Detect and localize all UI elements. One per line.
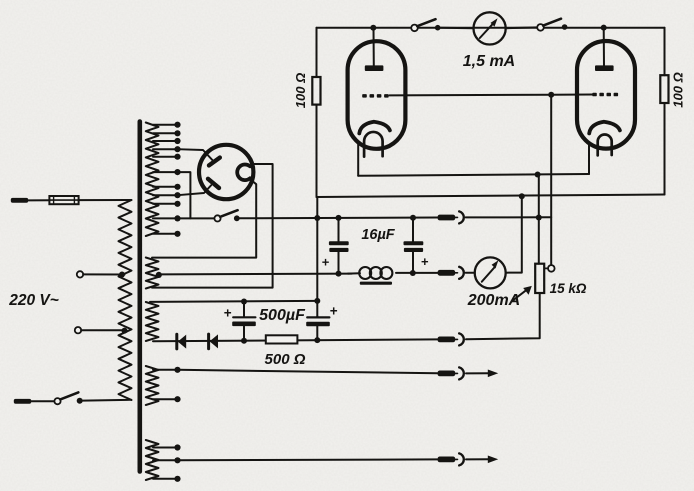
wire loop bottom down to meter M2 <box>506 196 522 273</box>
label R2 100 Ohm <box>671 72 686 107</box>
tube V2 envelope right <box>577 41 635 149</box>
wire V1 cathode to filament rail <box>357 142 359 176</box>
label M1 1,5 mA <box>463 53 515 70</box>
plug contact jack5 <box>438 457 458 463</box>
wire loop bottom rail <box>317 195 665 198</box>
node pot feed junction on rail <box>536 215 542 221</box>
label M2 200mA <box>467 292 520 309</box>
wire below R1 down to loop bottom <box>316 105 318 197</box>
wire grid junction to V2 <box>551 94 592 96</box>
node grid junction <box>548 92 554 98</box>
tube V1 envelope left <box>348 41 406 149</box>
pot adjustment arrow <box>512 286 532 302</box>
svg-text:500 Ω: 500 Ω <box>265 351 306 368</box>
selector keyway notch <box>237 164 250 180</box>
wire S1 to meter <box>441 27 474 29</box>
primary winding <box>119 200 132 400</box>
diode D2 <box>209 334 218 349</box>
wire jack1 to wiper line <box>466 216 552 218</box>
wire meter to S2 <box>506 26 538 29</box>
wire DC top rail <box>150 301 317 302</box>
wire terminal upper to primary <box>83 273 124 275</box>
node anode junction left tube <box>370 25 376 31</box>
svg-text:+: + <box>322 255 330 270</box>
arrow output 5 <box>466 456 498 464</box>
wire terminal lower to primary <box>81 329 126 331</box>
pot wiper contact <box>544 265 554 272</box>
wire stub to switch S4 <box>31 400 54 402</box>
capacitor C4 500uF <box>306 316 330 340</box>
plug contact jack4 <box>438 371 458 377</box>
wire right vertical of loop upper <box>664 28 666 75</box>
cathode dome V2 <box>589 122 620 134</box>
grid V2 (dashes) <box>592 93 618 97</box>
plug contact jack3 <box>438 337 458 343</box>
terminal 220V upper <box>77 271 83 277</box>
wire selector lower contact to sec2 top <box>152 181 256 258</box>
node cap2 bottom <box>410 270 416 276</box>
wire S4 to primary bottom <box>83 399 131 402</box>
wire fuse to primary top <box>79 199 131 201</box>
tap S5 bottom with dot <box>153 476 181 482</box>
wire top rail of output loop <box>317 27 665 29</box>
label C4 plus <box>330 304 338 319</box>
secondary winding S4 (filament A) <box>146 366 159 405</box>
label C1 plus <box>322 255 330 270</box>
wire stub to fuse <box>28 199 49 201</box>
jack socket jack2 <box>459 267 464 279</box>
fuse F1 lead stub <box>11 198 28 203</box>
label P1 15 kOhm <box>550 281 587 296</box>
label C2 plus <box>421 254 429 269</box>
tap S4 top with dot <box>153 367 181 373</box>
svg-text:1,5 mA: 1,5 mA <box>463 53 515 70</box>
anode plate V2 <box>595 65 614 71</box>
jack socket jack5 <box>459 453 464 465</box>
meter M1 1.5mA <box>474 12 506 44</box>
voltage selector socket body <box>199 145 253 199</box>
wire tap6 to switch S3 feed <box>178 172 191 218</box>
wire anode lead V1 <box>373 28 375 66</box>
svg-text:200mA: 200mA <box>467 292 520 309</box>
node cap3 top junction <box>241 299 247 305</box>
node primary tap upper <box>119 272 125 278</box>
switch S1 left of meter <box>411 19 440 31</box>
filament V2 <box>598 135 612 156</box>
secondary winding S2 <box>146 258 159 289</box>
capacitor C2 16uF <box>404 218 424 274</box>
wire pot bottom down and left to jack3 <box>466 293 540 339</box>
label C3 plus <box>224 306 232 321</box>
node primary tap lower <box>122 328 128 334</box>
wire filament junction down to pot <box>538 175 540 264</box>
wire filament rail between tubes <box>358 174 589 176</box>
svg-text:15 kΩ: 15 kΩ <box>550 281 587 296</box>
wire anode lead V2 <box>603 28 605 66</box>
label R3 500 Ohm <box>265 351 306 368</box>
tap S5 middle with dot <box>153 457 181 463</box>
anode plate V1 <box>365 65 384 71</box>
wire lower filter rail left part <box>160 273 353 276</box>
svg-text:+: + <box>224 306 232 321</box>
capacitor C1 16uF <box>329 218 349 274</box>
node rail x317 <box>314 215 320 221</box>
svg-text:220 V~: 220 V~ <box>8 292 59 309</box>
wire top filter rail <box>237 217 438 220</box>
arrow output 4 <box>466 370 498 378</box>
wire V2 cathode to filament rail <box>588 143 590 174</box>
mains stub bottom <box>14 399 31 404</box>
wire tap10 to switch S3 <box>178 217 215 219</box>
node sec2 centre tap <box>156 272 162 278</box>
plug contact jack1 <box>438 215 458 221</box>
inductor L1 choke loops <box>348 267 392 279</box>
wire jack2 to M2 <box>466 272 475 274</box>
wire long vertical from loop corner down <box>316 197 318 316</box>
secondary winding S5 (filament B) <box>146 440 159 480</box>
node DC top rail junction <box>314 298 320 304</box>
wire grid junction down to wiper <box>550 95 552 265</box>
taps of secondary 1 with terminal dots <box>153 122 181 237</box>
resistor R1 100 Ohm left <box>312 77 320 105</box>
node filament rail junction <box>535 172 541 178</box>
resistor R3 500 Ohm <box>266 335 298 343</box>
node cap1 bottom <box>336 271 342 277</box>
switch S2 right of meter <box>537 19 567 31</box>
cathode dome V1 <box>359 122 390 134</box>
svg-text:+: + <box>330 304 338 319</box>
svg-text:500µF: 500µF <box>259 307 306 324</box>
switch S3 selector <box>214 210 239 221</box>
wire S4 to jack4 <box>178 370 438 374</box>
label 16uF <box>361 227 395 243</box>
node cap3 bottom <box>241 338 247 344</box>
potentiometer P1 15k body <box>535 264 544 293</box>
label 220 V <box>8 292 59 309</box>
label R1 100 Ohm <box>293 73 308 108</box>
node anode junction right tube <box>601 25 607 31</box>
wire grid line V1 to junction <box>390 94 552 97</box>
node rail cap1 top <box>336 215 342 221</box>
fuse F1 body <box>49 196 78 204</box>
jack socket jack3 <box>459 333 464 345</box>
selector pin upper with lead <box>178 149 220 165</box>
meter M2 200mA <box>475 257 506 288</box>
secondary winding S3 <box>146 302 159 341</box>
svg-text:100 Ω: 100 Ω <box>293 73 308 108</box>
wire selector notch to sec2 bottom <box>152 164 273 288</box>
node rail cap2 top <box>410 215 416 221</box>
selector pin lower with lead <box>178 179 220 195</box>
inductor L1 core bar <box>360 282 392 285</box>
tap S4 bottom with dot <box>153 396 181 402</box>
secondary winding S1 (tapped) <box>146 123 159 237</box>
terminal 220V lower <box>75 327 81 333</box>
switch S4 mains <box>54 392 82 404</box>
node loop bottom junction <box>519 193 525 199</box>
wire below R2 to loop bottom <box>664 103 666 195</box>
wire left vertical of loop (anode supply left) <box>316 28 318 77</box>
filament V1 <box>364 132 383 157</box>
plug contact jack2 <box>438 270 458 276</box>
label 500uF <box>259 307 306 324</box>
svg-text:100 Ω: 100 Ω <box>671 72 686 107</box>
jack socket jack4 <box>459 367 464 379</box>
node cap4 bottom <box>314 337 320 343</box>
diode D1 <box>177 334 186 349</box>
svg-text:16µF: 16µF <box>361 227 395 243</box>
grid V1 (dashes) <box>362 94 389 98</box>
wire DC bottom rail <box>153 339 438 341</box>
transformer core <box>138 122 143 472</box>
svg-text:+: + <box>421 254 429 269</box>
capacitor C3 500uF <box>232 302 256 341</box>
wire S5 to jack5 <box>178 458 438 461</box>
jack socket jack1 <box>459 211 464 223</box>
resistor R2 100 Ohm right <box>660 75 668 103</box>
wire choke to cap2 <box>396 272 438 274</box>
tap S5 top with dot <box>153 444 181 450</box>
